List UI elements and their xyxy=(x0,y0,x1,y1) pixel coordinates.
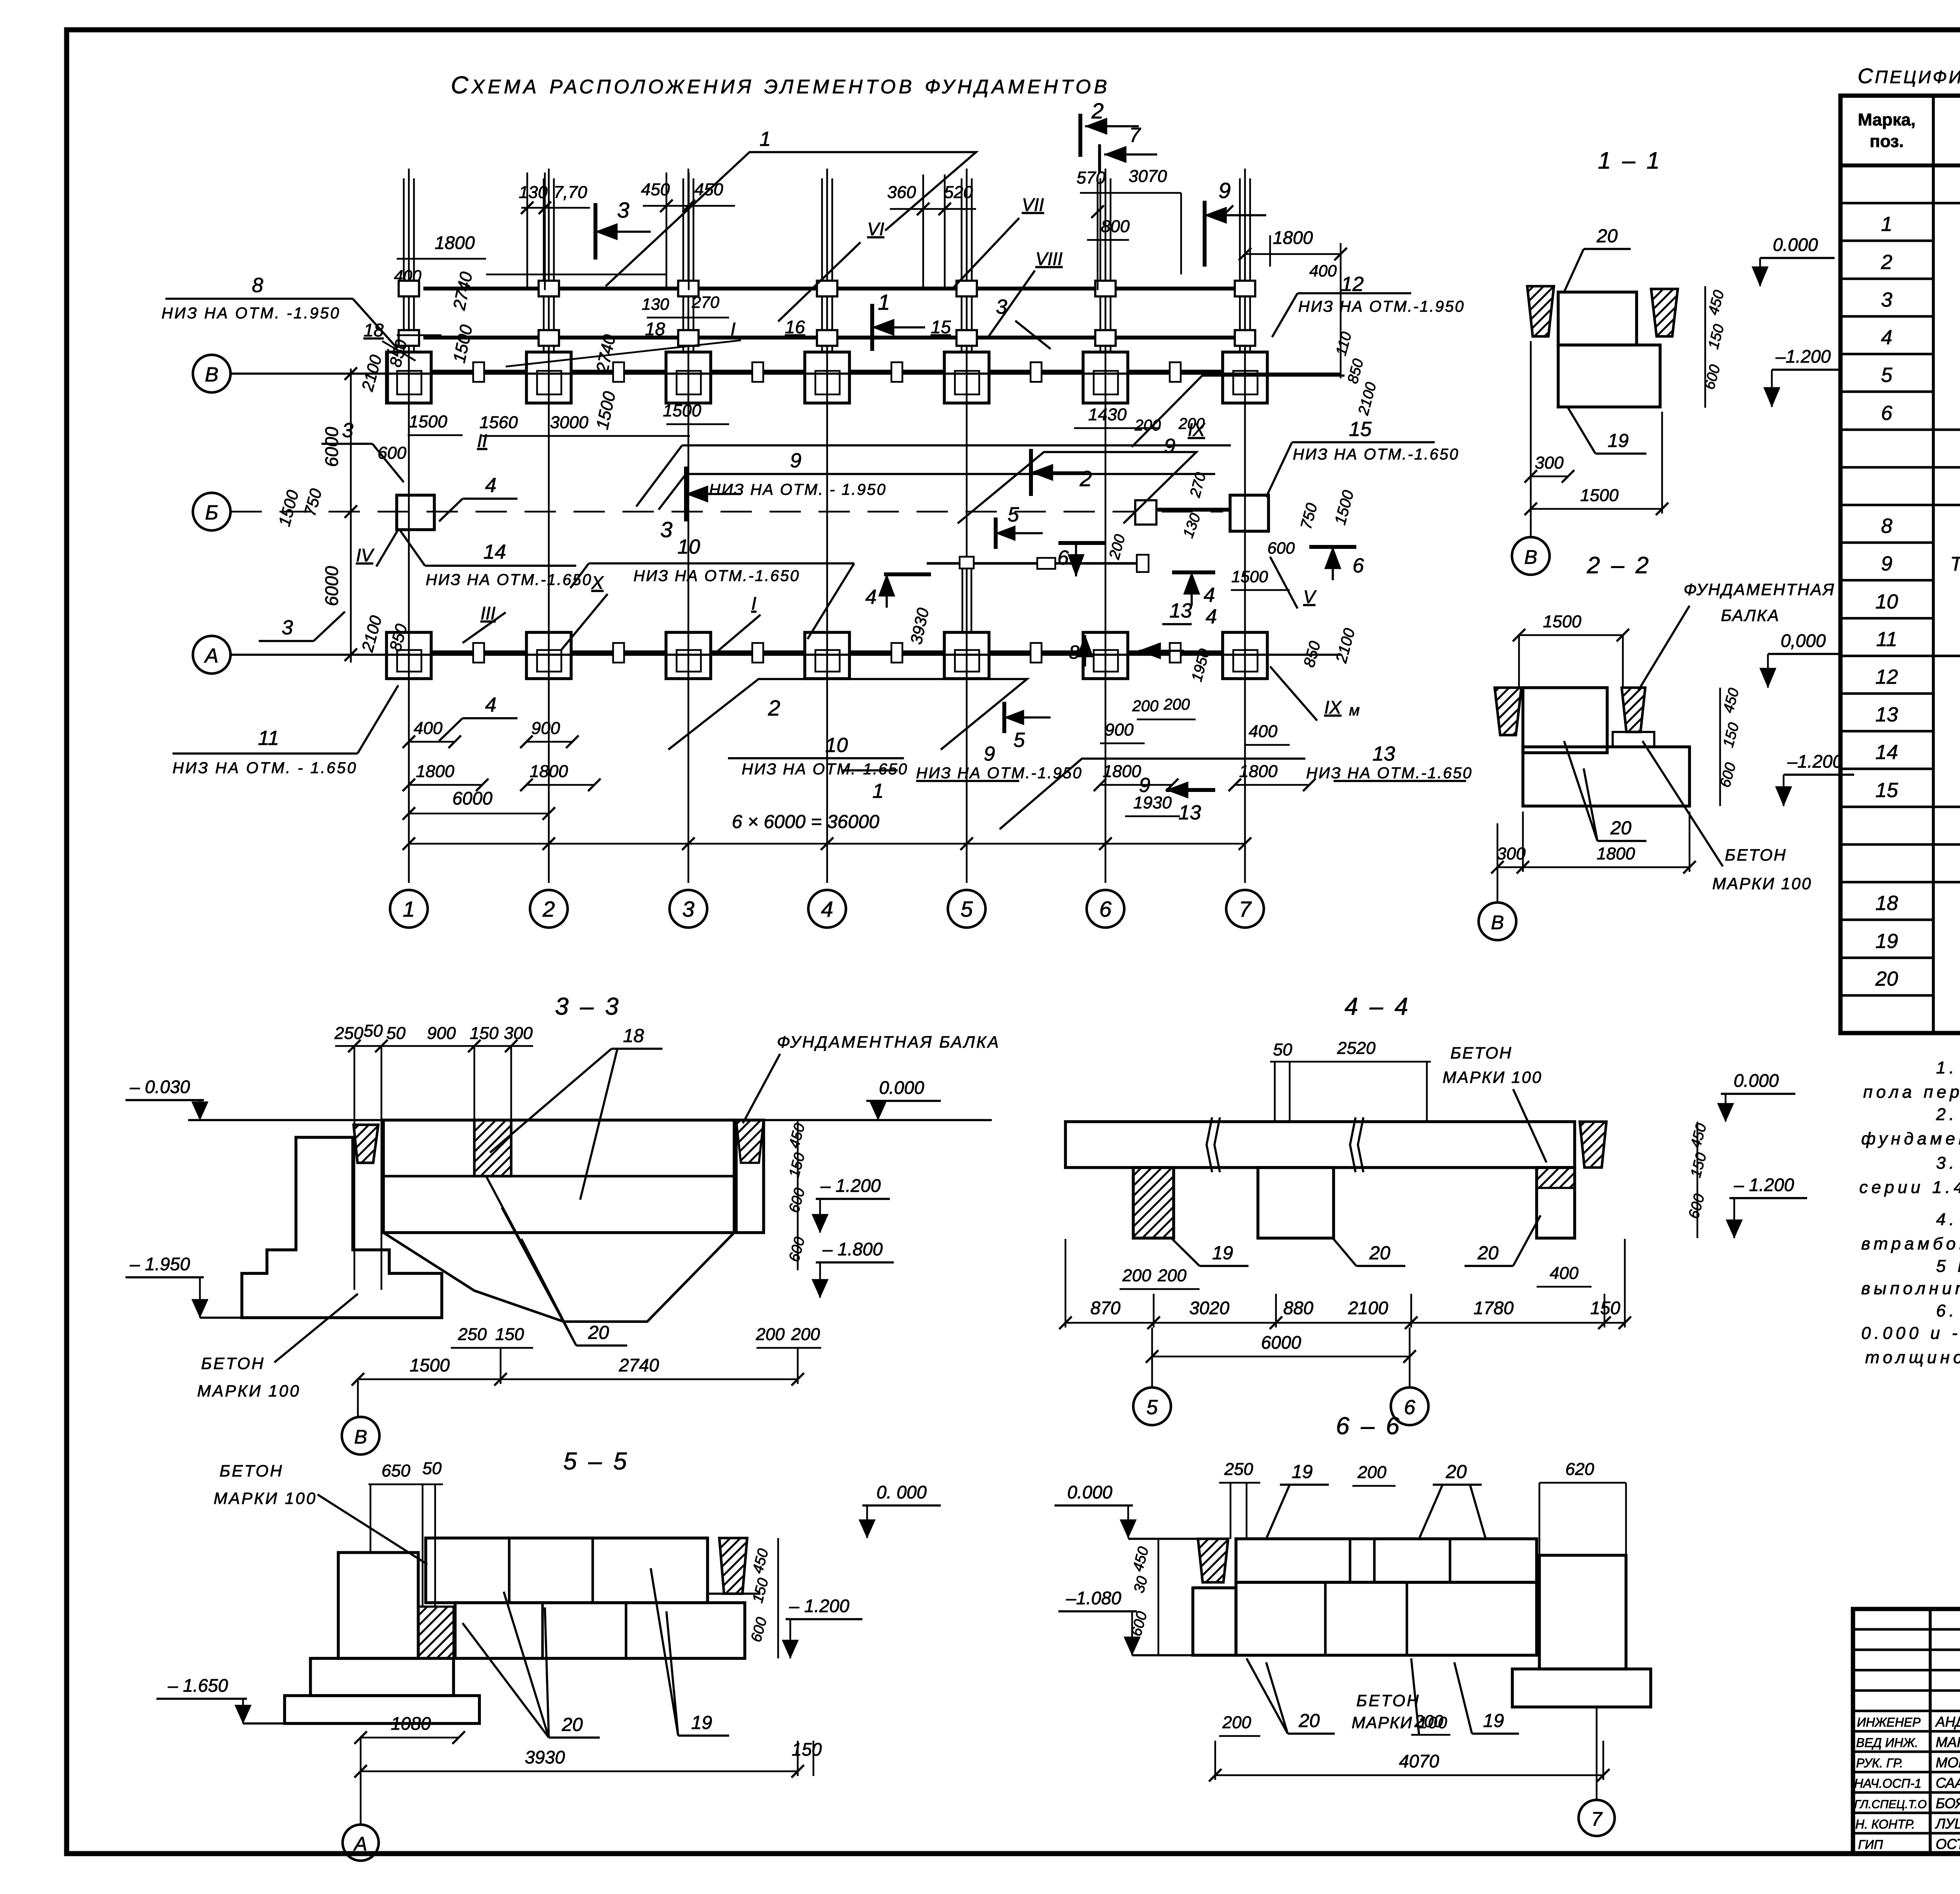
axis 4 line xyxy=(826,169,828,883)
beam to foundation 15 xyxy=(1158,508,1230,512)
svg-text:В: В xyxy=(354,1426,367,1448)
axis 3 line xyxy=(688,169,690,883)
center label 9 niz na otm -1.950 xyxy=(682,444,1231,447)
beam strip axis 6 xyxy=(1100,178,1102,351)
svg-text:10: 10 xyxy=(825,734,848,757)
svg-text:900: 900 xyxy=(531,719,560,738)
section flag 9 mid right xyxy=(1139,650,1184,652)
svg-text:16: 16 xyxy=(785,317,805,337)
rotated dims right xyxy=(777,1538,779,1658)
svg-text:18: 18 xyxy=(623,1026,644,1046)
section flag 2 mid left xyxy=(1029,449,1033,496)
svg-text:7,70: 7,70 xyxy=(554,183,587,202)
svg-text:6: 6 xyxy=(1404,1396,1416,1419)
svg-text:400: 400 xyxy=(414,719,443,738)
svg-text:4: 4 xyxy=(485,694,497,716)
svg-text:поз.: поз. xyxy=(1870,132,1904,151)
svg-text:3: 3 xyxy=(1881,289,1893,311)
svg-text:900: 900 xyxy=(1105,720,1134,739)
beam strip axis 7 xyxy=(1239,178,1241,351)
axis circle V xyxy=(1530,514,1532,536)
svg-text:Марка,: Марка, xyxy=(1858,110,1915,129)
left hatch trapezoid xyxy=(1198,1539,1228,1582)
svg-text:ТП904-1- КЖ лист 8: ТП904-1- КЖ лист 8 xyxy=(1950,553,1960,575)
svg-text:6: 6 xyxy=(1058,547,1069,569)
axis circle 7 xyxy=(1596,1707,1598,1799)
block 19 bottom xyxy=(1558,345,1660,407)
svg-text:– 1.200: – 1.200 xyxy=(789,1596,849,1616)
svg-text:VI: VI xyxy=(867,219,884,239)
svg-text:ИНЖЕНЕР: ИНЖЕНЕР xyxy=(1857,1715,1921,1729)
beam row A bay 6 xyxy=(1128,650,1223,654)
wall second row xyxy=(455,1603,745,1658)
svg-text:2520: 2520 xyxy=(1337,1039,1376,1058)
right tall block xyxy=(1539,1555,1626,1669)
beam hatched top left xyxy=(354,1125,378,1163)
svg-text:150: 150 xyxy=(495,1325,524,1344)
column row V axis 4 xyxy=(805,352,849,403)
svg-text:X: X xyxy=(591,572,604,593)
svg-text:6 – 6: 6 – 6 xyxy=(1336,1413,1402,1440)
top dim chain axis1/2: 130 770 xyxy=(521,207,590,209)
row axis Bm line xyxy=(230,511,1223,513)
section flag 4 left xyxy=(884,572,931,576)
svg-text:СХЕМА РАСПОЛОЖЕНИЯ ЭЛЕМЕНТОВ: СХЕМА РАСПОЛОЖЕНИЯ ЭЛЕМЕНТОВ ФУНДАМЕНТОВ xyxy=(451,72,1110,99)
svg-text:1500: 1500 xyxy=(1543,612,1581,631)
section flag 6 upper xyxy=(1058,541,1105,545)
rotated dims left xyxy=(1158,1539,1160,1655)
svg-text:6: 6 xyxy=(1881,402,1893,425)
svg-text:6000: 6000 xyxy=(452,788,493,808)
svg-text:СПЕЦИФИКАЦИЯ К СХЕМЕ РАСПОЛОЖ: СПЕЦИФИКАЦИЯ К СХЕМЕ РАСПОЛОЖЕНИЯ ЭЛЕМЕН… xyxy=(1858,64,1960,88)
section flag 5 upper xyxy=(994,518,998,549)
svg-text:0.000: 0.000 xyxy=(1733,1070,1779,1091)
svg-text:– 1.800: – 1.800 xyxy=(822,1239,883,1259)
svg-text:520: 520 xyxy=(944,183,973,202)
svg-text:МОРГУНОВ: МОРГУНОВ xyxy=(1936,1754,1960,1771)
svg-text:600: 600 xyxy=(1267,539,1295,557)
svg-text:400: 400 xyxy=(394,267,422,285)
svg-text:400: 400 xyxy=(1249,722,1278,741)
svg-text:1: 1 xyxy=(760,128,771,151)
beam row V bay 4 xyxy=(849,370,944,374)
svg-text:2: 2 xyxy=(1079,466,1092,491)
big block mass xyxy=(383,1120,734,1233)
svg-text:–1.200: –1.200 xyxy=(1787,751,1843,772)
axis 5 line xyxy=(966,169,968,883)
svg-text:8: 8 xyxy=(1881,515,1893,538)
beam row A bay 2 xyxy=(571,650,666,654)
axis circles 5 6 xyxy=(1151,1327,1153,1387)
svg-text:выполнить набетонки из бетона: выполнить набетонки из бетона марки 100,… xyxy=(1861,1279,1960,1298)
svg-text:НИЗ НА ОТМ.-1.650: НИЗ НА ОТМ.-1.650 xyxy=(742,761,908,778)
top dim chain axis6: 570 3070 xyxy=(1080,192,1181,194)
section flag 1 xyxy=(870,304,874,351)
top row blocks xyxy=(1236,1539,1537,1582)
svg-text:15: 15 xyxy=(931,317,951,337)
svg-text:6 × 6000 = 36000: 6 × 6000 = 36000 xyxy=(732,812,880,832)
svg-text:3: 3 xyxy=(996,296,1007,318)
column row A axis 4 xyxy=(805,632,849,679)
row circle A xyxy=(193,636,230,674)
left stepped foundation xyxy=(242,1137,442,1318)
svg-text:19: 19 xyxy=(1292,1462,1312,1482)
hatch patch xyxy=(418,1607,454,1658)
svg-text:1800: 1800 xyxy=(435,232,475,253)
svg-text:ЛУЦЕНКО: ЛУЦЕНКО xyxy=(1935,1816,1960,1832)
svg-text:18: 18 xyxy=(1875,892,1898,915)
svg-text:НИЗ НА ОТМ.-1.950: НИЗ НА ОТМ.-1.950 xyxy=(1298,298,1465,315)
callout parallelogram 1 top xyxy=(606,152,976,286)
hatched wall left xyxy=(1495,688,1521,735)
small left block xyxy=(1193,1588,1236,1655)
svg-text:130: 130 xyxy=(519,183,548,202)
svg-text:5 – 5: 5 – 5 xyxy=(563,1448,629,1475)
svg-text:VII: VII xyxy=(1022,194,1044,215)
column row A axis 3 xyxy=(666,632,711,679)
svg-text:I: I xyxy=(731,319,736,339)
right hatched trapezoid xyxy=(1580,1122,1606,1168)
joint sleeve row V bay 1 xyxy=(473,362,484,382)
block 20 top xyxy=(1523,688,1607,753)
svg-text:7: 7 xyxy=(1129,124,1142,147)
svg-text:3: 3 xyxy=(617,198,629,222)
foundation 15 at B axis7 xyxy=(1230,495,1269,531)
svg-text:3. Фундаменты выполняются в ти: 3. Фундаменты выполняются в типовой опал… xyxy=(1936,1153,1960,1173)
svg-text:м: м xyxy=(1349,702,1359,719)
svg-text:А: А xyxy=(353,1833,367,1855)
svg-text:5: 5 xyxy=(1008,503,1020,526)
svg-text:1: 1 xyxy=(878,290,890,314)
svg-text:7: 7 xyxy=(1239,897,1252,921)
svg-text:20: 20 xyxy=(1369,1243,1390,1264)
svg-text:200: 200 xyxy=(1357,1463,1387,1482)
svg-text:4: 4 xyxy=(821,897,833,921)
svg-text:200: 200 xyxy=(791,1325,820,1344)
svg-text:фундаментов дана в пояснительн: фундаментов дана в пояснительной записке… xyxy=(1861,1129,1960,1148)
svg-text:Б: Б xyxy=(205,501,218,524)
section flag 3 mid xyxy=(684,467,688,521)
svg-text:БОЯРЧЕНКО: БОЯРЧЕНКО xyxy=(1936,1795,1960,1811)
svg-text:1800: 1800 xyxy=(416,762,454,781)
svg-text:– 1.650: – 1.650 xyxy=(167,1675,228,1696)
svg-text:50: 50 xyxy=(387,1024,406,1043)
flag 8 up near A6 xyxy=(1084,635,1086,666)
svg-text:3930: 3930 xyxy=(525,1747,565,1767)
svg-text:МАРКИ 100: МАРКИ 100 xyxy=(214,1489,317,1507)
section flag 4 mid xyxy=(1172,570,1215,574)
svg-text:НИЗ НА ОТМ. - 1.650: НИЗ НА ОТМ. - 1.650 xyxy=(172,759,358,777)
axis circle 5 xyxy=(948,890,985,928)
joint sleeve row V bay 6 xyxy=(1170,362,1181,382)
callout 9 right xyxy=(1132,376,1345,447)
section flag 6 right xyxy=(1309,545,1356,549)
svg-text:ОСТАШЕВСКИЙ: ОСТАШЕВСКИЙ xyxy=(1936,1836,1960,1852)
column row A axis 7 xyxy=(1223,632,1267,679)
svg-text:БЕТОН: БЕТОН xyxy=(220,1462,283,1480)
svg-text:ГЛ.СПЕЦ.Т.О: ГЛ.СПЕЦ.Т.О xyxy=(1854,1798,1927,1811)
svg-text:В: В xyxy=(205,363,219,386)
svg-text:15: 15 xyxy=(1349,418,1372,441)
pier 3 xyxy=(1537,1168,1575,1238)
svg-text:4: 4 xyxy=(485,474,497,497)
svg-text:200: 200 xyxy=(1163,696,1190,713)
joint sleeve row V bay 3 xyxy=(752,362,763,382)
svg-text:3070: 3070 xyxy=(1129,167,1167,186)
svg-text:1500: 1500 xyxy=(410,1355,450,1375)
svg-text:20: 20 xyxy=(1875,968,1898,990)
right rotated dims xyxy=(1697,1122,1699,1238)
svg-text:1560: 1560 xyxy=(479,413,518,432)
svg-text:СААКЬЯНЦ: СААКЬЯНЦ xyxy=(1936,1775,1960,1791)
beam section 5-5 line xyxy=(927,562,1144,565)
svg-text:Н. КОНТР.: Н. КОНТР. xyxy=(1855,1817,1915,1831)
svg-text:18: 18 xyxy=(645,319,665,339)
svg-text:2740: 2740 xyxy=(619,1355,659,1375)
row axis A line xyxy=(230,654,1341,656)
svg-text:– 0.030: – 0.030 xyxy=(129,1077,190,1097)
svg-text:IV: IV xyxy=(356,545,375,565)
svg-text:18: 18 xyxy=(363,320,384,340)
svg-text:– 1.200: – 1.200 xyxy=(1733,1175,1794,1195)
svg-text:20: 20 xyxy=(561,1714,583,1735)
svg-text:НИЗ НА ОТМ.-1.650: НИЗ НА ОТМ.-1.650 xyxy=(1306,765,1473,782)
svg-text:РУК. ГР.: РУК. ГР. xyxy=(1856,1756,1903,1770)
section flag 9 top xyxy=(1203,201,1207,267)
svg-text:ВЕД ИНЖ.: ВЕД ИНЖ. xyxy=(1856,1736,1918,1750)
svg-text:3000: 3000 xyxy=(550,413,588,432)
svg-text:13: 13 xyxy=(1875,703,1898,726)
beam pad xyxy=(1613,732,1654,747)
svg-text:1800: 1800 xyxy=(1273,227,1313,248)
upper foundation beam 2 xyxy=(423,336,1250,340)
axis circle V xyxy=(357,1379,359,1416)
column row A axis 2 xyxy=(526,632,571,679)
svg-text:серии 1.412- 1/77: серии 1.412- 1/77 xyxy=(1859,1178,1960,1197)
pier 1 hatched xyxy=(1133,1168,1174,1238)
svg-text:300: 300 xyxy=(1535,453,1564,472)
svg-text:1 – 1: 1 – 1 xyxy=(1598,147,1662,174)
svg-text:14: 14 xyxy=(483,541,506,563)
svg-text:7: 7 xyxy=(1591,1808,1603,1830)
svg-text:19: 19 xyxy=(1608,430,1628,451)
svg-text:4070: 4070 xyxy=(1399,1751,1439,1771)
svg-text:270: 270 xyxy=(691,293,720,311)
svg-text:20: 20 xyxy=(1445,1462,1467,1482)
svg-text:4: 4 xyxy=(866,586,877,608)
plan group xyxy=(193,72,1341,928)
svg-text:2. Характеристика грунтов, слу: 2. Характеристика грунтов, служащих осно… xyxy=(1936,1105,1960,1124)
beam row V bay 5 xyxy=(989,370,1083,374)
row axis B line xyxy=(230,372,1341,375)
svg-text:1: 1 xyxy=(1881,213,1893,236)
column row V axis 6 xyxy=(1083,352,1128,403)
hatched pier center xyxy=(474,1120,511,1176)
svg-text:200: 200 xyxy=(1134,417,1161,434)
svg-text:10: 10 xyxy=(677,536,700,558)
svg-text:1800: 1800 xyxy=(1597,844,1635,863)
svg-text:50: 50 xyxy=(364,1021,383,1041)
hatched wall right xyxy=(1651,289,1678,336)
svg-text:360: 360 xyxy=(887,183,916,202)
section flag 1 bottom xyxy=(843,769,898,772)
svg-text:3: 3 xyxy=(660,517,672,542)
svg-text:10: 10 xyxy=(1875,590,1898,613)
beam row V bay 2 xyxy=(571,370,666,374)
svg-text:200: 200 xyxy=(1157,1266,1187,1285)
svg-text:19: 19 xyxy=(691,1712,712,1733)
svg-text:20: 20 xyxy=(1298,1711,1320,1731)
svg-text:1. За условную отметку 0 000 п: 1. За условную отметку 0 000 принят уров… xyxy=(1936,1058,1960,1077)
svg-text:НИЗ НА ОТМ. - 1.950: НИЗ НА ОТМ. - 1.950 xyxy=(709,481,887,498)
svg-text:5 На участках между торцами фу: 5 На участках между торцами фундаментных… xyxy=(1936,1257,1960,1276)
svg-text:150: 150 xyxy=(470,1024,499,1043)
svg-text:БАЛКА: БАЛКА xyxy=(1721,606,1780,625)
section flag 5 lower xyxy=(1002,702,1006,733)
svg-text:2: 2 xyxy=(768,695,780,720)
svg-text:В: В xyxy=(1491,912,1504,933)
upper foundation beam 1 xyxy=(423,287,1250,291)
vertical strip axis5 above row A xyxy=(962,557,964,631)
svg-text:2100: 2100 xyxy=(1348,1298,1388,1318)
svg-text:0.000: 0.000 xyxy=(1773,234,1818,255)
pit profile xyxy=(383,1233,734,1322)
svg-text:НАЧ.ОСП-1: НАЧ.ОСП-1 xyxy=(1854,1776,1922,1790)
axis circle 1 xyxy=(390,890,428,928)
callout 2 bottom xyxy=(668,679,1027,750)
svg-text:5: 5 xyxy=(1881,364,1893,387)
svg-text:1: 1 xyxy=(403,897,415,921)
svg-text:9: 9 xyxy=(1218,178,1230,203)
top level line xyxy=(188,1119,992,1121)
block 19 bottom xyxy=(1523,747,1690,806)
callout 9 bottom xyxy=(1000,759,1305,829)
beam row V bay 1 xyxy=(431,370,526,374)
beam strip axis 3 xyxy=(682,178,684,351)
end plate of 5-5 beam xyxy=(1137,555,1149,572)
svg-text:0,000: 0,000 xyxy=(1780,630,1826,651)
axis 2 line xyxy=(548,169,550,883)
svg-text:3: 3 xyxy=(342,419,354,442)
svg-text:А: А xyxy=(204,645,219,667)
svg-text:1800: 1800 xyxy=(1239,762,1278,781)
svg-text:20: 20 xyxy=(1477,1243,1499,1264)
left stepped foundation xyxy=(338,1553,418,1658)
svg-text:1780: 1780 xyxy=(1474,1298,1514,1318)
svg-text:4 – 4: 4 – 4 xyxy=(1345,993,1410,1020)
svg-text:800: 800 xyxy=(1101,217,1130,236)
svg-text:11: 11 xyxy=(1876,628,1897,651)
svg-text:5: 5 xyxy=(1014,729,1025,752)
spec table outer xyxy=(1840,96,1960,1033)
svg-text:6. Гидроизоляция под стены вып: 6. Гидроизоляция под стены выполняется н… xyxy=(1936,1301,1960,1320)
svg-text:НИЗ НА ОТМ. -1.950: НИЗ НА ОТМ. -1.950 xyxy=(162,305,341,322)
row circle V xyxy=(193,355,230,392)
svg-text:650: 650 xyxy=(381,1461,410,1480)
svg-text:450: 450 xyxy=(641,180,670,199)
svg-text:200: 200 xyxy=(1122,1266,1151,1285)
svg-text:1430: 1430 xyxy=(1088,405,1127,424)
svg-text:1500: 1500 xyxy=(1580,486,1619,505)
svg-text:8: 8 xyxy=(252,274,263,297)
beam row A bay 3 xyxy=(711,650,805,654)
right hatch trapezoid xyxy=(719,1538,747,1594)
svg-text:ГИП: ГИП xyxy=(1858,1838,1883,1852)
axis 6 line xyxy=(1105,169,1107,883)
svg-text:13: 13 xyxy=(1372,743,1395,765)
fund beam edge lines xyxy=(422,1484,424,1607)
axis circle 6 xyxy=(1087,890,1124,928)
svg-text:1: 1 xyxy=(873,780,884,803)
svg-text:19: 19 xyxy=(1875,930,1898,953)
svg-text:–1.080: –1.080 xyxy=(1066,1588,1122,1608)
column row V axis 2 xyxy=(526,352,571,403)
svg-text:300: 300 xyxy=(1497,844,1526,863)
svg-text:150: 150 xyxy=(792,1739,822,1760)
svg-text:БЕТОН: БЕТОН xyxy=(201,1354,265,1373)
dim 1800 right of axis7 xyxy=(1245,253,1341,255)
svg-text:200: 200 xyxy=(755,1325,785,1344)
joint sleeve row V bay 4 xyxy=(891,362,902,382)
svg-text:14: 14 xyxy=(1875,741,1898,764)
block 20 top xyxy=(1558,292,1637,345)
svg-text:250: 250 xyxy=(457,1325,487,1344)
svg-text:ФУНДАМЕНТНАЯ БАЛКА: ФУНДАМЕНТНАЯ БАЛКА xyxy=(777,1033,1000,1051)
svg-text:2: 2 xyxy=(1091,98,1103,123)
svg-text:20: 20 xyxy=(588,1322,609,1343)
main title block frame xyxy=(1853,1609,1960,1854)
beam strip axis 2 xyxy=(543,178,545,351)
svg-text:5: 5 xyxy=(960,897,973,921)
beam row V bay 6 xyxy=(1128,370,1223,374)
svg-text:870: 870 xyxy=(1091,1298,1121,1318)
svg-text:6000: 6000 xyxy=(321,427,342,467)
svg-text:–1.200: –1.200 xyxy=(1775,346,1831,367)
svg-text:3: 3 xyxy=(682,897,694,921)
svg-text:VIII: VIII xyxy=(1035,249,1062,269)
break marks xyxy=(1207,1117,1220,1172)
right dim column xyxy=(797,1120,799,1270)
pier 2 xyxy=(1258,1168,1334,1238)
beam strip axis 4 xyxy=(821,178,823,351)
beam strip axis 1 xyxy=(403,178,405,351)
svg-text:АНДРЕЕВА: АНДРЕЕВА xyxy=(1935,1714,1960,1730)
svg-text:19: 19 xyxy=(1212,1243,1233,1264)
svg-text:пола первого этажа машинного з: пола первого этажа машинного зала xyxy=(1863,1082,1960,1102)
sleeve near axis6 row B xyxy=(1135,500,1156,525)
top dim chain axis5: 360 520 xyxy=(890,208,976,210)
column row V axis 1 xyxy=(387,352,431,403)
svg-text:11: 11 xyxy=(258,727,279,750)
svg-text:20: 20 xyxy=(1610,818,1632,839)
svg-text:IX: IX xyxy=(1324,697,1342,717)
svg-text:0.000 и -0.030 из слоя цементн: 0.000 и -0.030 из слоя цементного раство… xyxy=(1861,1324,1960,1343)
section flag 3 top xyxy=(593,203,597,260)
column row A axis 5 xyxy=(944,632,989,679)
top beam band xyxy=(1065,1122,1575,1168)
svg-text:0.000: 0.000 xyxy=(1067,1482,1112,1502)
svg-text:2: 2 xyxy=(542,897,555,921)
svg-text:2: 2 xyxy=(1881,251,1893,274)
svg-text:50: 50 xyxy=(423,1459,442,1478)
svg-text:1800: 1800 xyxy=(530,762,568,781)
axis circle V xyxy=(1497,872,1499,902)
svg-text:ФУНДАМЕНТНАЯ: ФУНДАМЕНТНАЯ xyxy=(1684,580,1835,599)
svg-text:МАРКИ 100: МАРКИ 100 xyxy=(1443,1068,1543,1086)
column row V axis 7 xyxy=(1223,352,1267,403)
joint sleeve row V bay 2 xyxy=(613,362,624,382)
svg-text:200: 200 xyxy=(1222,1713,1251,1732)
